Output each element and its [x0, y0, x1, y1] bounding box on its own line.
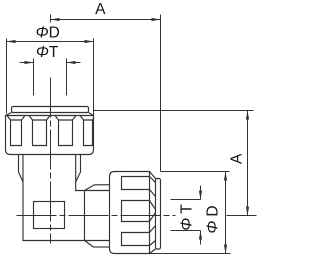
arrowhead A top left: [51, 18, 60, 21]
elbow body: right neck outer line with chamfer: [76, 155, 81, 183]
horizontal nut slot 1: [122, 177, 150, 190]
arrowhead A right down: [246, 207, 249, 216]
elbow body: bottom chamfer to neck: [85, 241, 94, 248]
svg-text:A: A: [95, 1, 106, 18]
vertical nut slot 1: [7, 116, 25, 146]
elbow body: left neck outer line with chamfer: [19, 155, 24, 183]
horizontal nut cap chamfers: [150, 172, 156, 254]
elbow body: right side and top edge: [76, 155, 110, 191]
arrowhead ΦD top right: [85, 40, 94, 43]
centerline vertical branch: [50, 78, 52, 244]
vertical nut slot 2: [29, 116, 50, 146]
elbow body: square boss: [34, 202, 65, 229]
elbow body: left side and bottom edge: [23, 155, 110, 241]
arrowhead ΦD right up: [224, 172, 227, 181]
dimension ΦT top: arrow tails outside: [20, 62, 81, 64]
svg-text:ΦD: ΦD: [36, 25, 60, 42]
dimension A top: right extension line: [160, 15, 162, 172]
dimension A right: dimension line: [247, 111, 249, 216]
dimension A right: horizontal extension line from nut top plane: [94, 110, 254, 112]
horizontal nut body: [110, 172, 150, 254]
centerline horizontal branch right stub: [227, 215, 257, 217]
elbow body: neck bottom outer line: [94, 246, 110, 248]
vertical nut cap chamfers: [6, 113, 94, 116]
arrowhead ΦT right bottom (outside, points up): [199, 231, 202, 240]
dimension ΦD right: dimension line: [225, 172, 227, 254]
horizontal nut cap: [156, 179, 161, 250]
arrowhead ΦT top left (outside, points right): [25, 61, 34, 64]
horizontal nut slot 2: [122, 201, 150, 222]
svg-text:ΦT: ΦT: [178, 200, 195, 230]
elbow body: top chamfer to neck: [85, 185, 95, 191]
horizontal nut rib taper diagonals: [150, 177, 156, 246]
vertical nut body: [6, 116, 94, 155]
centerline horizontal branch: [17, 215, 176, 217]
elbow body: neck top outer line: [95, 184, 110, 186]
dimension ΦT right: arrow tails outside: [200, 186, 202, 245]
arrowhead A right up: [246, 111, 249, 120]
arrowhead ΦD right down: [224, 245, 227, 254]
dimension A top: extension tick at centerline: [50, 15, 52, 23]
arrowhead ΦT right top (outside, points down): [199, 191, 202, 200]
vertical nut cap: [12, 107, 89, 113]
dimension ΦD top: dimension line: [7, 41, 94, 43]
dimension ΦD top: left extension line: [6, 39, 8, 114]
dimension ΦT right: extension lines: [171, 200, 201, 231]
vertical nut slot 3: [55, 116, 76, 146]
svg-text:A: A: [228, 153, 245, 164]
vertical nut slot 4: [80, 116, 94, 146]
svg-text:ΦD: ΦD: [204, 201, 221, 233]
dimension ΦD right: top extension line: [161, 171, 230, 173]
svg-text:ΦT: ΦT: [36, 44, 59, 61]
dimension A top: dimension line: [51, 19, 161, 21]
elbow body: junction line: [84, 191, 86, 241]
dimension ΦD right: bottom extension line: [150, 253, 231, 255]
arrowhead A top right: [152, 18, 161, 21]
dimension ΦT top: extension lines: [34, 59, 67, 96]
dimension ΦD top: right extension line: [93, 39, 95, 116]
horizontal nut slot 3: [122, 233, 150, 246]
arrowhead ΦD top left: [7, 40, 16, 43]
arrowhead ΦT top right (outside, points left): [67, 61, 76, 64]
